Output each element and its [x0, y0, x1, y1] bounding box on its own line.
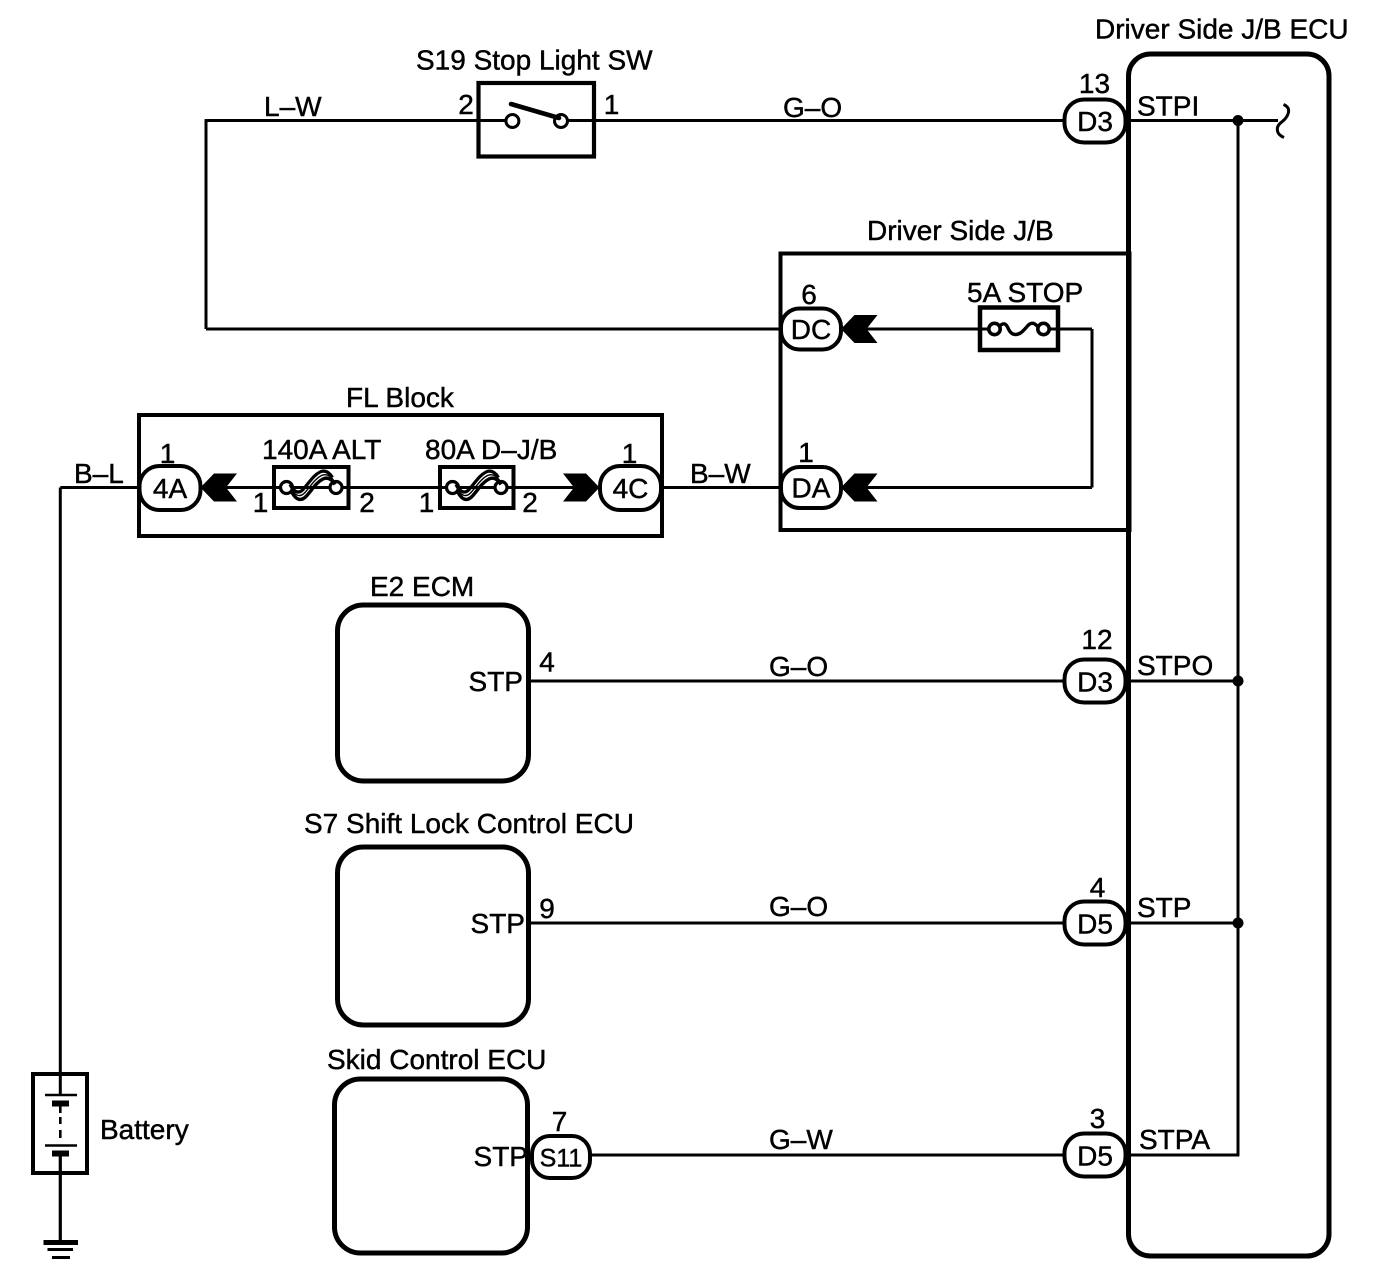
pin 1 label 4A	[160, 438, 176, 469]
node STPI	[1137, 91, 1199, 122]
pin 6 label	[801, 279, 817, 310]
pin 4 of E2	[539, 647, 555, 678]
junction STPO bus	[1233, 676, 1244, 687]
connector 4C	[600, 466, 661, 510]
svg-text:6: 6	[801, 279, 817, 310]
pin 1 label DA	[798, 437, 814, 468]
wire FL block internal	[201, 486, 600, 489]
pin 9 of S7	[539, 893, 555, 924]
svg-text:1: 1	[419, 487, 435, 518]
pin 13 label	[1079, 68, 1110, 99]
connector D3 pin 12	[1065, 660, 1126, 703]
wire STPA internal	[1130, 1154, 1239, 1157]
svg-text:G–O: G–O	[769, 891, 828, 922]
svg-text:DC: DC	[791, 314, 831, 345]
svg-text:3: 3	[1090, 1103, 1106, 1134]
svg-text:Driver Side J/B: Driver Side J/B	[867, 215, 1054, 246]
svg-text:G–O: G–O	[769, 651, 828, 682]
wire continuation squiggle	[1277, 105, 1288, 138]
svg-text:4A: 4A	[153, 473, 188, 504]
ground	[44, 1243, 79, 1258]
junction STPI bus	[1233, 115, 1244, 126]
connector D5 pin 4	[1065, 902, 1126, 945]
junction STP bus	[1233, 918, 1244, 929]
ECU Skid Control ECU	[327, 1044, 546, 1253]
fuse 80A pin 2	[522, 487, 538, 518]
wire STPI internal	[1130, 119, 1278, 122]
wire left loop vertical (L-W branch)	[205, 121, 208, 330]
svg-text:G–W: G–W	[769, 1124, 833, 1155]
svg-text:S11: S11	[540, 1145, 583, 1173]
svg-text:D3: D3	[1077, 106, 1113, 137]
label G-O	[769, 651, 828, 682]
fuse 80A pin 1	[419, 487, 435, 518]
label G-W	[769, 1124, 833, 1155]
arrow into 4C	[563, 474, 600, 502]
ECU E2 ECM	[338, 571, 529, 781]
svg-text:D3: D3	[1077, 667, 1113, 698]
fuse 140A ALT	[262, 434, 381, 508]
wire switch pin1 to connector D3	[568, 119, 1065, 122]
wire battery feed vertical	[59, 488, 62, 1096]
wire loop to DC connector	[206, 328, 781, 331]
svg-text:Battery: Battery	[100, 1114, 189, 1145]
wire DC to 5A fuse and down to DA	[841, 329, 1092, 488]
svg-text:G–O: G–O	[783, 92, 842, 123]
svg-text:80A D–J/B: 80A D–J/B	[425, 434, 557, 465]
connector DC	[781, 309, 841, 350]
pin 1 of S19	[604, 89, 620, 120]
svg-text:1: 1	[253, 487, 269, 518]
svg-text:B–L: B–L	[74, 458, 124, 489]
wire S11 to D5	[590, 1154, 1065, 1157]
svg-text:E2 ECM: E2 ECM	[370, 571, 474, 602]
svg-text:Skid Control ECU: Skid Control ECU	[327, 1044, 546, 1075]
fuse 5A STOP	[967, 277, 1083, 350]
arrow into 4A	[201, 474, 238, 502]
pin 2 of S19	[458, 89, 474, 120]
switch S19 Stop Light SW	[416, 45, 653, 157]
svg-text:13: 13	[1079, 68, 1110, 99]
svg-text:STPO: STPO	[1137, 650, 1213, 681]
svg-text:L–W: L–W	[264, 91, 322, 122]
label B-L	[74, 458, 124, 489]
svg-text:DA: DA	[792, 473, 831, 504]
ECU box Driver Side J/B ECU	[1095, 14, 1349, 1257]
wire B-W 4C to DA	[661, 486, 781, 489]
pin 4 label	[1090, 872, 1106, 903]
battery	[33, 1074, 189, 1173]
svg-text:4C: 4C	[613, 473, 649, 504]
svg-text:1: 1	[604, 89, 620, 120]
label G-O	[769, 891, 828, 922]
svg-text:S7 Shift Lock Control ECU: S7 Shift Lock Control ECU	[304, 808, 634, 839]
svg-text:B–W: B–W	[690, 458, 751, 489]
svg-text:4: 4	[1090, 872, 1106, 903]
fuse 80A D-J/B	[425, 434, 557, 508]
svg-text:140A ALT: 140A ALT	[262, 434, 381, 465]
node STPA	[1139, 1124, 1210, 1155]
pin 12 label	[1081, 624, 1112, 655]
svg-text:5A STOP: 5A STOP	[967, 277, 1083, 308]
svg-text:D5: D5	[1077, 909, 1113, 940]
fuse 140A pin 2	[359, 487, 375, 518]
svg-text:STP: STP	[474, 1141, 528, 1172]
svg-text:STPI: STPI	[1137, 91, 1199, 122]
svg-text:STP: STP	[471, 908, 525, 939]
svg-text:STP: STP	[1137, 892, 1191, 923]
svg-text:2: 2	[458, 89, 474, 120]
svg-text:9: 9	[539, 893, 555, 924]
svg-text:7: 7	[552, 1106, 568, 1137]
label L-W	[264, 91, 322, 122]
svg-text:2: 2	[522, 487, 538, 518]
connector S11	[532, 1136, 590, 1178]
wire S7 STP to D5	[530, 922, 1065, 925]
svg-text:S19 Stop Light SW: S19 Stop Light SW	[416, 45, 653, 76]
arrow into DA	[841, 474, 878, 502]
fuse 140A pin 1	[253, 487, 269, 518]
connector D5 pin 3	[1065, 1134, 1126, 1177]
svg-text:Driver Side J/B ECU: Driver Side J/B ECU	[1095, 14, 1349, 45]
FL Block box	[139, 382, 662, 536]
svg-text:D5: D5	[1077, 1141, 1113, 1172]
wire internal bus vertical	[1237, 121, 1240, 1156]
wire top horizontal to switch pin 2	[205, 119, 506, 122]
svg-text:2: 2	[359, 487, 375, 518]
connector D3 pin 13	[1065, 100, 1126, 143]
pin 1 label 4C	[622, 438, 638, 469]
svg-text:12: 12	[1081, 624, 1112, 655]
wire STPO internal	[1130, 680, 1238, 683]
svg-text:STPA: STPA	[1139, 1124, 1210, 1155]
label B-W	[690, 458, 751, 489]
wire STP internal	[1130, 922, 1238, 925]
node STPO	[1137, 650, 1213, 681]
ECU S7 Shift Lock Control ECU	[304, 808, 634, 1025]
node STP	[1137, 892, 1191, 923]
svg-text:FL Block: FL Block	[346, 382, 455, 413]
wire battery to ground	[59, 1154, 62, 1243]
connector 4A	[140, 466, 201, 510]
wire B-L battery to 4A	[60, 486, 140, 489]
connector DA	[781, 467, 841, 508]
svg-text:1: 1	[798, 437, 814, 468]
label G-O	[783, 92, 842, 123]
junction box Driver Side J/B	[781, 215, 1130, 530]
wire E2 STP to D3	[530, 680, 1065, 683]
pin 7 of S11	[552, 1106, 568, 1137]
svg-text:4: 4	[539, 647, 555, 678]
pin 3 label	[1090, 1103, 1106, 1134]
arrow into DC	[841, 315, 878, 343]
svg-text:STP: STP	[469, 666, 523, 697]
